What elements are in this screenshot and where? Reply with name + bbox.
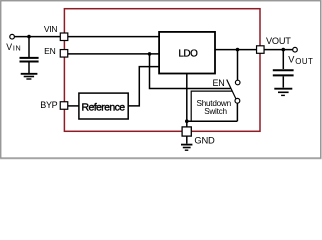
wire EN to shutdown switch bbox=[150, 54, 231, 89]
svg-text:OUT: OUT bbox=[295, 57, 313, 66]
svg-text:BYP: BYP bbox=[40, 100, 57, 110]
wire BYP to reference bbox=[64, 105, 79, 107]
wire switch bottom to GND bbox=[187, 120, 238, 122]
capacitor CIN bbox=[20, 58, 39, 73]
node EN branch bbox=[148, 52, 152, 56]
op-amp LDO block bbox=[159, 32, 215, 74]
terminal VIN bbox=[10, 34, 15, 39]
pin EN bbox=[60, 50, 68, 58]
wire below GND pin bbox=[186, 136, 188, 144]
svg-text:EN: EN bbox=[213, 78, 225, 88]
switch lever bbox=[227, 80, 236, 99]
label Shutdown Switch bbox=[196, 99, 231, 116]
node input cap tap bbox=[27, 35, 31, 39]
wire switch top bbox=[237, 50, 239, 81]
svg-text:Switch: Switch bbox=[204, 107, 227, 116]
wire VOUT net bbox=[215, 49, 293, 51]
block Reference bbox=[79, 93, 128, 119]
pin GND bbox=[182, 127, 191, 136]
ground (GND pin) bbox=[181, 145, 192, 151]
outer frame bbox=[0, 0, 321, 159]
label VOUT terminal bbox=[288, 55, 313, 67]
pin VIN bbox=[60, 33, 68, 41]
svg-text:VIN: VIN bbox=[44, 24, 57, 34]
ground (output cap) bbox=[274, 89, 292, 96]
pin BYP bbox=[60, 102, 68, 110]
switch contact top bbox=[235, 80, 240, 85]
svg-text:IN: IN bbox=[13, 43, 21, 52]
terminal VOUT bbox=[293, 47, 298, 52]
switch contact bottom bbox=[235, 98, 240, 103]
svg-text:VOUT: VOUT bbox=[266, 36, 291, 46]
pin VOUT bbox=[257, 46, 265, 54]
capacitor COUT bbox=[273, 70, 294, 87]
wire to output cap bbox=[282, 50, 284, 69]
ground (input cap) bbox=[21, 74, 38, 79]
wire reference to LDO bbox=[128, 67, 159, 106]
label VIN terminal bbox=[6, 42, 21, 53]
wire EN net bbox=[64, 53, 160, 55]
svg-text:GND: GND bbox=[194, 135, 215, 146]
svg-text:LDO: LDO bbox=[178, 48, 198, 59]
IC boundary (red box) bbox=[64, 9, 260, 132]
svg-text:V: V bbox=[6, 42, 12, 52]
wire GND net bbox=[186, 74, 188, 128]
block Shutdown Switch (open box) bbox=[191, 91, 232, 121]
node switch tap bbox=[236, 48, 240, 52]
wire VIN net bbox=[14, 36, 159, 38]
node GND junction bbox=[185, 119, 189, 123]
svg-text:Reference: Reference bbox=[81, 101, 125, 113]
node output cap tap bbox=[282, 48, 286, 52]
wire switch bottom bbox=[236, 103, 238, 121]
svg-text:EN: EN bbox=[44, 46, 55, 56]
wire to input cap bbox=[28, 37, 30, 57]
